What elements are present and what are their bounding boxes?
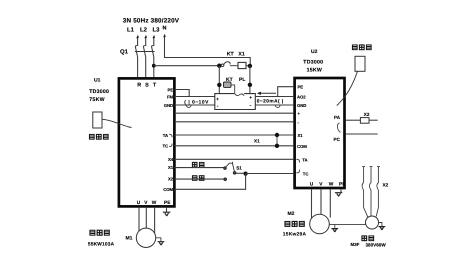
shield arc U1	[186, 105, 191, 107]
svg-text:TC: TC	[303, 171, 309, 176]
svg-text:X2: X2	[168, 177, 174, 182]
brace PA PC	[337, 123, 340, 132]
svg-text:M1: M1	[126, 236, 133, 242]
wire L1 drop	[137, 38, 139, 45]
wire X1 row to switch	[175, 167, 224, 169]
svg-text:+: +	[298, 111, 301, 116]
svg-text:L1: L1	[127, 27, 135, 34]
bond wire M2 to fan	[329, 223, 365, 225]
svg-text:X1: X1	[254, 139, 260, 144]
wire L3 to T	[153, 57, 155, 78]
ground fan	[379, 227, 386, 230]
svg-text:PA: PA	[334, 115, 341, 120]
supply arrow L1	[136, 35, 139, 39]
cross wire row4	[175, 112, 294, 114]
supply arrow L3	[152, 35, 155, 39]
node S1	[244, 172, 248, 176]
svg-text:-: -	[217, 104, 219, 110]
ground wire M1	[156, 238, 161, 242]
svg-text:( | 0~10V: ( | 0~10V	[184, 99, 209, 105]
jumper X1 link	[276, 135, 278, 146]
svg-text:3N 50Hz 380/220V: 3N 50Hz 380/220V	[123, 17, 180, 24]
wire S1 common to node	[236, 172, 246, 174]
wire L3 to KT contact	[154, 65, 220, 67]
PE step U2	[278, 87, 294, 97]
signal arrow	[259, 92, 276, 94]
label chongxi	[192, 176, 204, 181]
U2 left edge terminal labels	[297, 85, 308, 177]
motor M2	[310, 214, 330, 234]
svg-text:L3: L3	[153, 27, 161, 34]
svg-text:W: W	[152, 200, 157, 206]
svg-text:0~20mA( |: 0~20mA( |	[257, 98, 284, 104]
svg-text:PE: PE	[298, 85, 304, 90]
GND row U2	[255, 104, 293, 106]
wires U1 to converter: FM row	[175, 96, 215, 98]
svg-text:X1: X1	[168, 165, 174, 170]
svg-text:S1: S1	[236, 165, 242, 170]
U1 right edge terminal labels	[162, 87, 173, 192]
U2 PE wire	[340, 189, 342, 192]
svg-text:15Kw29A: 15Kw29A	[283, 231, 307, 237]
label caozuopan U2	[352, 45, 371, 50]
U1 inverter box	[119, 78, 174, 206]
supply arrow L2	[144, 35, 147, 39]
svg-text:COM: COM	[297, 144, 307, 149]
svg-text:15KW: 15KW	[307, 68, 322, 74]
svg-text:+: +	[249, 95, 252, 100]
svg-text:75KW: 75KW	[89, 97, 104, 103]
label zhudianji	[90, 230, 109, 235]
U1 U V W wires to motor	[139, 208, 155, 233]
wire L3 drop	[153, 38, 155, 45]
svg-text:X1: X1	[298, 133, 304, 138]
svg-text:T: T	[153, 83, 157, 89]
brace TA TC U2	[296, 159, 299, 173]
svg-text:X1: X1	[238, 51, 244, 57]
svg-text:TA: TA	[302, 157, 307, 162]
svg-text:TC: TC	[162, 144, 168, 149]
svg-text:M3F: M3F	[351, 242, 360, 247]
svg-text:U2: U2	[311, 49, 318, 55]
contact KT	[221, 62, 238, 67]
breaker Q1 poles	[135, 45, 155, 57]
wire L2 to S	[145, 57, 147, 78]
ground U1 PE	[163, 212, 171, 216]
keypad U2	[355, 56, 365, 71]
breaker link line	[135, 51, 155, 53]
svg-text:PE: PE	[164, 200, 171, 206]
svg-text:N: N	[163, 26, 167, 32]
svg-text:-: -	[250, 103, 252, 109]
node right of X1	[248, 64, 252, 68]
wire L2 drop	[145, 38, 147, 45]
ground M1	[158, 242, 165, 245]
svg-text:X2: X2	[383, 183, 389, 188]
svg-text:U1: U1	[94, 78, 101, 84]
coil X2 box	[360, 118, 369, 124]
svg-text:AO2: AO2	[297, 94, 306, 99]
U1 bottom labels U V W PE	[137, 200, 171, 206]
fan feeder wires with X2 contacts	[362, 167, 380, 218]
wire PC row	[346, 133, 378, 135]
wire TC to COM	[175, 145, 294, 147]
wire N drop and run right	[165, 37, 251, 66]
wire node to TC of U2	[246, 173, 294, 175]
brace TA TC U1	[169, 134, 172, 146]
ground mid	[332, 229, 339, 232]
wire TA to X1	[175, 134, 294, 136]
svg-text:TA: TA	[163, 133, 168, 138]
U2 U V W wires to motor	[312, 189, 331, 218]
node on L3	[152, 64, 156, 68]
svg-text:-: -	[298, 120, 300, 125]
svg-text:TD3000: TD3000	[303, 60, 323, 66]
switch S1 contact a	[224, 167, 227, 170]
switch S1 blade	[226, 162, 235, 172]
supply arrow N	[163, 34, 166, 38]
svg-text:PL: PL	[239, 77, 245, 83]
svg-text:X2: X2	[364, 112, 370, 117]
U2 inverter box	[295, 78, 345, 188]
fan ground wire	[379, 223, 382, 227]
switch S1 contact b	[224, 178, 227, 181]
node KT coil left	[217, 83, 221, 87]
wire L1 to R	[137, 57, 139, 78]
svg-text:+: +	[216, 97, 219, 102]
converter box	[215, 94, 256, 110]
wire X2 row to switch	[175, 178, 224, 180]
node left of KT contact	[217, 63, 221, 67]
svg-text:R: R	[137, 83, 141, 89]
svg-text:KT: KT	[227, 51, 235, 57]
fan motor	[366, 216, 379, 229]
keypad U1	[93, 112, 102, 128]
keypad cable U2	[337, 71, 358, 105]
U1 PE wire	[166, 208, 168, 212]
svg-text:FM: FM	[167, 94, 174, 99]
wire PA row	[346, 119, 361, 121]
U2 bottom labels U V W PE	[310, 182, 346, 188]
svg-text:U: U	[137, 200, 141, 206]
svg-text:M2: M2	[288, 211, 295, 217]
ground U2 PE	[335, 193, 342, 197]
label fengji	[362, 236, 374, 241]
wire left branch down	[218, 66, 220, 94]
ground stub mid	[334, 224, 336, 228]
label caozuopan U1	[89, 134, 108, 139]
relay coil KT	[224, 82, 232, 87]
svg-text:Q1: Q1	[120, 49, 129, 56]
label fenli	[192, 162, 204, 167]
PE step U1	[175, 90, 190, 97]
shield arc U2	[275, 105, 280, 107]
wire X4 to TA	[175, 158, 294, 160]
svg-text:GND: GND	[164, 103, 173, 108]
svg-text:L2: L2	[140, 27, 148, 34]
svg-text:PC: PC	[334, 137, 341, 142]
svg-text:PE: PE	[339, 182, 346, 188]
relay coil X1 box	[238, 62, 246, 68]
GND row U1	[175, 104, 215, 106]
svg-text:GND: GND	[297, 103, 306, 108]
svg-text:X4: X4	[168, 157, 174, 162]
svg-text:U: U	[310, 182, 314, 188]
switch S1 common	[233, 172, 236, 175]
keypad cable U1	[102, 119, 132, 127]
svg-text:PE: PE	[167, 87, 173, 92]
cross wire row5	[175, 121, 294, 123]
wire coil to down-bend	[231, 85, 235, 93]
wire node down to COM row	[175, 174, 246, 190]
svg-text:COM: COM	[163, 187, 173, 192]
motor M1	[136, 228, 155, 247]
contact blades X2	[362, 183, 363, 190]
svg-text:W: W	[329, 182, 334, 188]
wire PA cont	[369, 119, 378, 121]
wires converter to U2: AO2 row	[255, 96, 293, 98]
node KT coil right	[248, 83, 252, 87]
svg-text:TD3000: TD3000	[89, 89, 109, 95]
svg-text:55KW103A: 55KW103A	[88, 242, 115, 248]
label fudianji	[285, 221, 304, 226]
svg-text:380V60W: 380V60W	[366, 243, 387, 248]
wire right branch down	[249, 66, 251, 94]
svg-text:S: S	[145, 83, 149, 89]
